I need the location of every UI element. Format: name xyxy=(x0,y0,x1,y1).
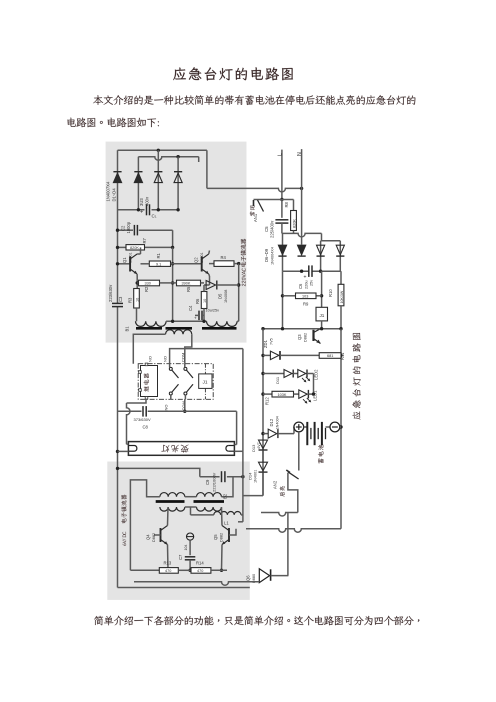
svg-text:223/630v: 223/630v xyxy=(108,284,113,302)
svg-text:C2: C2 xyxy=(121,225,126,231)
svg-text:R5: R5 xyxy=(186,286,191,292)
svg-text:1N4001: 1N4001 xyxy=(254,470,258,483)
svg-text:820K: 820K xyxy=(130,246,139,250)
svg-text:B1: B1 xyxy=(125,326,130,332)
svg-text:820K: 820K xyxy=(293,219,297,228)
svg-text:R12: R12 xyxy=(265,397,270,405)
svg-text:D12: D12 xyxy=(269,418,274,426)
svg-text:R3: R3 xyxy=(128,297,133,303)
svg-text:R6: R6 xyxy=(195,298,200,304)
svg-text:C8: C8 xyxy=(143,425,149,430)
svg-text:D5: D5 xyxy=(218,293,223,299)
svg-text:3U3: 3U3 xyxy=(139,198,144,206)
svg-text:C6: C6 xyxy=(298,283,303,289)
svg-text:390K: 390K xyxy=(182,282,191,286)
svg-text:1N4004X4: 1N4004X4 xyxy=(271,247,275,265)
svg-text:D13: D13 xyxy=(251,444,256,452)
svg-text:L: L xyxy=(277,153,283,156)
svg-text:R7: R7 xyxy=(142,237,147,243)
svg-text:NO: NO xyxy=(163,356,168,362)
svg-text:B2: B2 xyxy=(223,493,228,499)
svg-text:7V5: 7V5 xyxy=(270,338,274,345)
svg-text:Q4: Q4 xyxy=(146,534,151,540)
svg-text:D14: D14 xyxy=(248,472,253,480)
svg-text:C4: C4 xyxy=(188,305,193,311)
svg-text:R14: R14 xyxy=(196,561,204,566)
svg-text:13001: 13001 xyxy=(200,252,204,263)
svg-text:13001: 13001 xyxy=(129,252,133,263)
svg-text:C9: C9 xyxy=(205,479,210,485)
svg-text:J1: J1 xyxy=(320,313,325,318)
svg-text:R1: R1 xyxy=(156,252,161,258)
svg-text:1000p: 1000p xyxy=(126,221,131,233)
svg-text:C5: C5 xyxy=(264,226,269,232)
svg-text:104: 104 xyxy=(184,545,188,551)
svg-text:L1: L1 xyxy=(224,521,229,526)
svg-text:ZD1: ZD1 xyxy=(263,339,268,348)
svg-text:R11: R11 xyxy=(340,352,345,360)
svg-text:Q6: Q6 xyxy=(246,575,251,581)
svg-text:4V7: 4V7 xyxy=(257,442,261,449)
svg-text:C3: C3 xyxy=(118,296,123,302)
svg-text:R4: R4 xyxy=(221,255,227,260)
svg-text:+: + xyxy=(194,316,197,321)
svg-text:681: 681 xyxy=(327,354,333,358)
svg-text:103: 103 xyxy=(302,295,308,299)
svg-text:400v: 400v xyxy=(145,196,150,206)
svg-text:330: 330 xyxy=(145,282,151,286)
svg-text:D1~D4: D1~D4 xyxy=(112,188,117,202)
svg-text:225/400v: 225/400v xyxy=(270,220,275,238)
svg-text:+: + xyxy=(140,210,143,216)
svg-text:1N4007X4: 1N4007X4 xyxy=(106,181,111,201)
svg-text:103K: 103K xyxy=(278,393,287,397)
svg-text:9.1: 9.1 xyxy=(156,262,161,266)
svg-text:D882: D882 xyxy=(152,533,156,542)
svg-text:Q5: Q5 xyxy=(213,534,218,540)
svg-text:J1: J1 xyxy=(203,380,208,386)
svg-text:10: 10 xyxy=(135,298,139,302)
svg-text:C7: C7 xyxy=(178,554,183,560)
svg-text:D6~D9: D6~D9 xyxy=(264,248,269,262)
svg-text:Q3: Q3 xyxy=(297,334,302,340)
svg-text:NO: NO xyxy=(148,356,153,362)
svg-text:NO: NO xyxy=(164,405,169,411)
svg-text:N: N xyxy=(297,152,303,156)
svg-text:222/1000V: 222/1000V xyxy=(212,472,217,492)
svg-text:D882: D882 xyxy=(304,333,308,342)
svg-text:C1: C1 xyxy=(152,214,157,219)
svg-text:R8: R8 xyxy=(284,201,289,207)
svg-text:Q1: Q1 xyxy=(122,257,127,263)
svg-text:AN1: AN1 xyxy=(253,213,258,222)
svg-text:COM: COM xyxy=(181,353,186,362)
svg-text:220u: 220u xyxy=(305,281,309,289)
svg-text:10K/3W: 10K/3W xyxy=(340,290,344,303)
svg-text:10u/25v: 10u/25v xyxy=(206,309,220,313)
svg-text:R9: R9 xyxy=(303,302,309,307)
svg-text:+: + xyxy=(304,275,307,281)
svg-text:R13: R13 xyxy=(164,561,172,566)
svg-text:10: 10 xyxy=(203,299,207,303)
svg-text:D11: D11 xyxy=(275,376,280,384)
svg-text:AN2: AN2 xyxy=(273,480,278,489)
svg-text:1N4004: 1N4004 xyxy=(276,416,280,429)
svg-text:25v: 25v xyxy=(310,280,314,286)
svg-text:470: 470 xyxy=(165,569,171,573)
svg-text:D882: D882 xyxy=(220,533,224,542)
svg-text:373/630V: 373/630V xyxy=(134,417,151,422)
svg-text:Q2: Q2 xyxy=(194,257,199,263)
svg-text:470: 470 xyxy=(197,569,203,573)
svg-text:R2: R2 xyxy=(144,286,149,292)
svg-text:R10: R10 xyxy=(328,289,333,297)
svg-text:1N4008: 1N4008 xyxy=(224,290,228,303)
